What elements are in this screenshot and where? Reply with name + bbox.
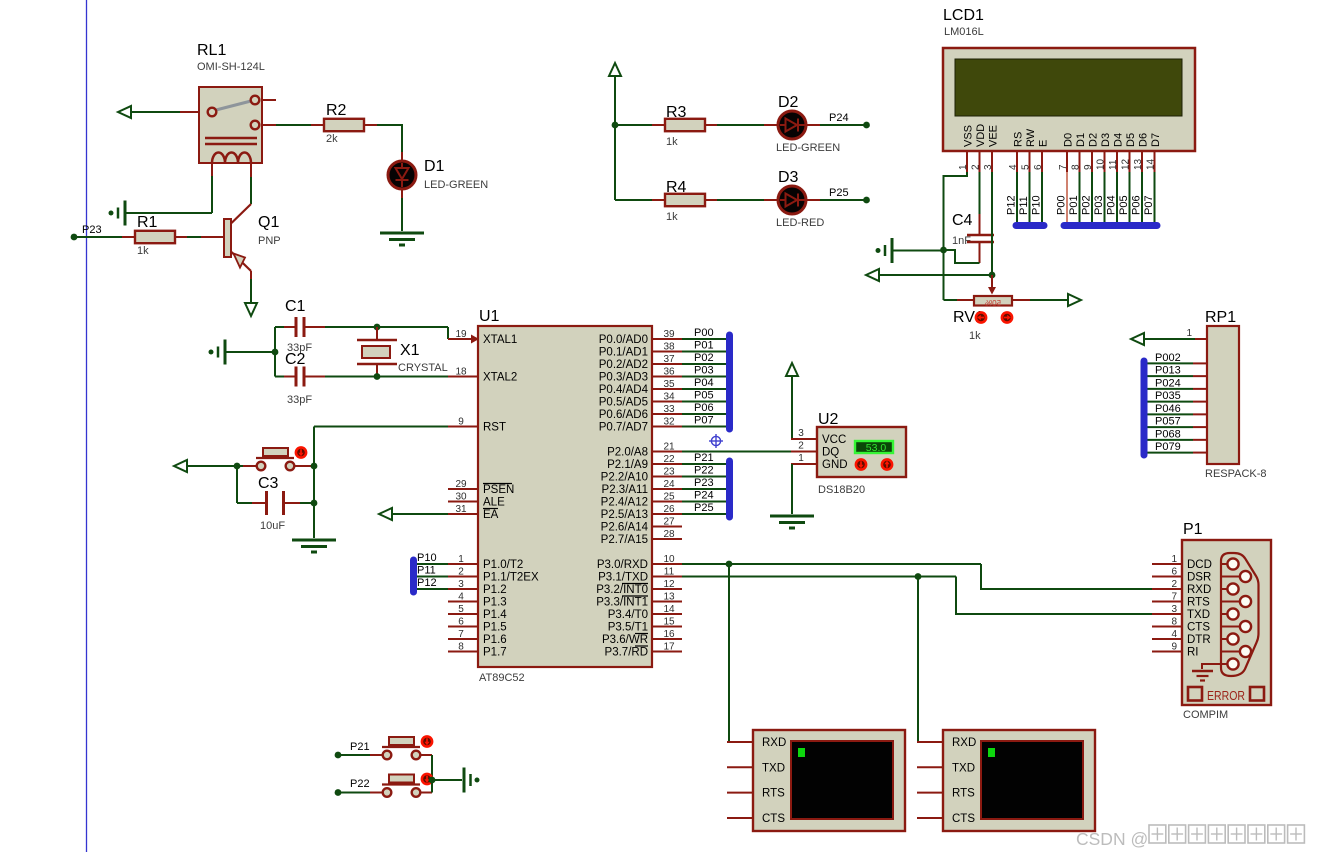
wire RXD to P1 <box>981 564 1152 589</box>
svg-text:P01: P01 <box>694 340 714 352</box>
svg-text:COMPIM: COMPIM <box>1183 709 1228 721</box>
svg-text:R1: R1 <box>137 214 158 231</box>
svg-text:TXD: TXD <box>1187 609 1210 621</box>
svg-text:P3.7/RD: P3.7/RD <box>605 647 648 659</box>
svg-text:P0.0/AD0: P0.0/AD0 <box>599 334 648 346</box>
svg-text:P05: P05 <box>694 390 714 402</box>
svg-text:P2.7/A15: P2.7/A15 <box>601 534 648 546</box>
svg-text:P3.5/T1: P3.5/T1 <box>608 622 648 634</box>
svg-text:29: 29 <box>455 479 467 490</box>
svg-text:P079: P079 <box>1155 441 1181 453</box>
svg-text:53.0: 53.0 <box>866 442 887 454</box>
button P21 actuator <box>422 736 432 746</box>
junction crystal bottom <box>374 373 381 380</box>
junction reset right <box>311 463 318 470</box>
wire relay NO to R2 <box>276 124 311 126</box>
svg-text:LED-RED: LED-RED <box>776 217 824 229</box>
capacitor C4 <box>952 172 994 263</box>
wire power rail down to R4 <box>615 125 652 200</box>
svg-text:P03: P03 <box>694 365 714 377</box>
svg-text:ALE: ALE <box>483 497 505 509</box>
svg-text:P2.3/A11: P2.3/A11 <box>602 484 648 496</box>
svg-text:D3: D3 <box>778 169 799 186</box>
svg-text:9: 9 <box>1083 164 1094 170</box>
bus LCD control <box>1016 222 1044 229</box>
wire relay coil to Q1 collector <box>250 177 252 204</box>
svg-text:LED-GREEN: LED-GREEN <box>776 142 840 154</box>
svg-text:RXD: RXD <box>762 737 786 749</box>
node arrow VEE rail <box>866 269 879 281</box>
svg-text:2: 2 <box>798 441 804 452</box>
LED D2 <box>776 94 840 154</box>
svg-text:TXD: TXD <box>762 762 785 774</box>
svg-text:D0: D0 <box>1063 133 1075 147</box>
svg-text:P2.5/A13: P2.5/A13 <box>601 509 648 521</box>
wire R2 to D1 <box>377 125 402 161</box>
wire U1 TXD run <box>682 576 956 578</box>
svg-text:P24: P24 <box>694 490 714 502</box>
svg-text:TXD: TXD <box>952 762 975 774</box>
ground left of relay coil <box>109 201 126 226</box>
svg-text:P3.0/RXD: P3.0/RXD <box>597 559 648 571</box>
svg-text:33: 33 <box>663 404 675 415</box>
svg-text:26: 26 <box>663 504 675 515</box>
ground below U2 <box>770 516 814 528</box>
svg-text:7: 7 <box>1171 592 1177 603</box>
node arrow reset left <box>174 460 187 472</box>
svg-text:8: 8 <box>1171 617 1177 628</box>
svg-text:D3: D3 <box>1100 133 1112 147</box>
transistor Q1 <box>224 204 281 279</box>
svg-text:P21: P21 <box>350 741 370 753</box>
svg-text:16: 16 <box>663 629 675 640</box>
svg-text:38: 38 <box>663 342 675 353</box>
svg-text:4: 4 <box>1171 629 1177 640</box>
crystal X1 <box>357 340 448 377</box>
sheet border line <box>86 0 88 852</box>
svg-text:2: 2 <box>1171 579 1177 590</box>
svg-text:P12: P12 <box>417 577 437 589</box>
svg-text:1k: 1k <box>666 136 678 148</box>
svg-text:P2.0/A8: P2.0/A8 <box>607 447 648 459</box>
svg-text:14: 14 <box>663 604 675 615</box>
svg-text:D7: D7 <box>1150 133 1162 147</box>
svg-text:CSDN @: CSDN @ <box>1076 829 1148 849</box>
svg-text:P10: P10 <box>417 552 437 564</box>
svg-text:P1.6: P1.6 <box>483 634 507 646</box>
potentiometer RV1 <box>953 296 1012 342</box>
svg-text:1: 1 <box>1171 554 1177 565</box>
svg-text:R2: R2 <box>326 102 347 119</box>
wire ground to relay coil <box>126 176 212 213</box>
wires P00-P07 to bus <box>682 327 726 427</box>
svg-text:XTAL1: XTAL1 <box>483 334 517 346</box>
svg-text:6: 6 <box>458 617 464 628</box>
svg-text:P01: P01 <box>1068 195 1080 215</box>
svg-text:P1.2: P1.2 <box>483 584 507 596</box>
node P24 terminal <box>863 122 870 129</box>
wires RP1 to bus <box>1147 352 1207 453</box>
svg-text:P02: P02 <box>694 352 714 364</box>
svg-text:P3.1/TXD: P3.1/TXD <box>598 572 648 584</box>
svg-text:P24: P24 <box>829 112 849 124</box>
bus RP1 <box>1141 361 1148 455</box>
wire LCD VSS to ground node <box>944 172 968 250</box>
svg-text:1: 1 <box>958 164 969 170</box>
ground left of C1 C2 <box>209 340 226 365</box>
wire C2 to XTAL2 <box>325 376 448 378</box>
svg-text:12: 12 <box>1121 158 1132 170</box>
wires P21-P25 to bus <box>682 452 726 514</box>
svg-text:28: 28 <box>663 529 675 540</box>
svg-text:1k: 1k <box>137 245 149 257</box>
junction C3 right <box>311 500 318 507</box>
wire power to U2 VCC <box>791 376 817 439</box>
wire arrow to reset button <box>187 465 257 467</box>
button P22 <box>382 775 432 797</box>
svg-text:21: 21 <box>663 442 675 453</box>
svg-text:RP1: RP1 <box>1205 309 1236 326</box>
svg-text:37: 37 <box>663 354 675 365</box>
svg-text:GND: GND <box>822 459 848 471</box>
svg-text:17: 17 <box>663 642 675 653</box>
svg-text:P23: P23 <box>694 477 714 489</box>
svg-text:2: 2 <box>971 164 982 170</box>
svg-text:P2.4/A12: P2.4/A12 <box>601 497 648 509</box>
wire C3 to RST net <box>300 502 314 504</box>
svg-text:E: E <box>1038 140 1050 147</box>
svg-text:22: 22 <box>663 454 675 465</box>
wire U2 GND to ground <box>791 464 817 514</box>
wire power to R3 row <box>614 76 616 125</box>
svg-text:3: 3 <box>983 164 994 170</box>
svg-text:5: 5 <box>458 604 464 615</box>
svg-text:VCC: VCC <box>822 434 846 446</box>
svg-text:P3.3/INT1: P3.3/INT1 <box>596 597 648 609</box>
svg-text:AT89C52: AT89C52 <box>479 672 525 684</box>
svg-text:4: 4 <box>1008 164 1019 170</box>
power arrow top <box>609 63 621 76</box>
svg-text:P3.2/INT0: P3.2/INT0 <box>596 584 648 596</box>
svg-text:P04: P04 <box>1106 195 1118 215</box>
LED D3 <box>776 169 824 229</box>
svg-text:RS: RS <box>1013 132 1025 147</box>
svg-text:X1: X1 <box>400 342 420 359</box>
svg-text:DCD: DCD <box>1187 559 1212 571</box>
svg-text:P06: P06 <box>1131 195 1143 215</box>
svg-text:RST: RST <box>483 422 506 434</box>
power arrow U2 <box>786 363 798 376</box>
svg-text:LCD1: LCD1 <box>943 7 984 24</box>
svg-text:D1: D1 <box>424 158 445 175</box>
svg-text:P1: P1 <box>1183 521 1203 538</box>
svg-text:Q1: Q1 <box>258 214 279 231</box>
svg-text:VSS: VSS <box>963 125 975 147</box>
wires P10-P12 to bus <box>417 552 448 589</box>
bus P2 <box>726 461 733 517</box>
junction TXD <box>915 573 922 580</box>
wire LCD VEE down <box>991 172 993 275</box>
svg-text:P1.4: P1.4 <box>483 609 507 621</box>
wire VEE to RV1 wiper <box>988 275 996 295</box>
svg-text:9: 9 <box>1171 642 1177 653</box>
svg-text:P068: P068 <box>1155 428 1181 440</box>
wire R3 to D2 <box>717 124 778 126</box>
svg-text:35: 35 <box>663 379 675 390</box>
svg-text:P03: P03 <box>1093 195 1105 215</box>
svg-text:P0.6/AD6: P0.6/AD6 <box>599 409 648 421</box>
svg-text:19: 19 <box>455 329 467 340</box>
capacitor C2 <box>275 351 325 406</box>
svg-text:34: 34 <box>663 392 675 403</box>
node arrow RP1 pin1 <box>1131 333 1144 345</box>
svg-text:P013: P013 <box>1155 365 1181 377</box>
svg-text:P2.6/A14: P2.6/A14 <box>601 522 649 534</box>
svg-text:ERROR: ERROR <box>1207 689 1245 703</box>
svg-text:RTS: RTS <box>762 788 785 800</box>
svg-text:P0.3/AD3: P0.3/AD3 <box>599 372 648 384</box>
svg-text:27: 27 <box>663 517 675 528</box>
svg-text:13: 13 <box>663 592 675 603</box>
svg-text:14: 14 <box>1146 158 1157 170</box>
junction VEE <box>989 272 996 279</box>
wire relay common to arrow <box>131 111 180 113</box>
svg-text:P2.2/A10: P2.2/A10 <box>601 472 648 484</box>
resistor R2 <box>311 102 377 145</box>
ground below reset net <box>292 540 336 552</box>
svg-text:1: 1 <box>798 453 804 464</box>
svg-text:36: 36 <box>663 367 675 378</box>
svg-text:P035: P035 <box>1155 390 1181 402</box>
svg-text:P02: P02 <box>1081 195 1093 215</box>
wire R4 to D3 <box>717 199 778 201</box>
svg-text:12: 12 <box>663 579 675 590</box>
reset button actuator <box>296 447 306 457</box>
svg-text:R3: R3 <box>666 104 687 121</box>
svg-text:RTS: RTS <box>952 788 975 800</box>
svg-text:11: 11 <box>664 567 675 578</box>
svg-text:P00: P00 <box>694 327 714 339</box>
reset button <box>256 448 314 470</box>
wires LCD data to bus <box>1006 172 1156 222</box>
capacitor C1 <box>275 298 325 354</box>
svg-text:P024: P024 <box>1155 377 1181 389</box>
svg-text:10: 10 <box>1096 158 1107 170</box>
bus P0 <box>726 335 733 429</box>
svg-text:D5: D5 <box>1125 133 1137 147</box>
svg-text:P21: P21 <box>694 452 714 464</box>
relay RL1 <box>180 87 276 177</box>
svg-text:RESPACK-8: RESPACK-8 <box>1205 468 1267 480</box>
svg-text:P1.5: P1.5 <box>483 622 507 634</box>
svg-text:8: 8 <box>458 642 464 653</box>
svg-text:P1.7: P1.7 <box>483 647 507 659</box>
svg-text:P05: P05 <box>1118 195 1130 215</box>
resistor R3 <box>652 104 717 148</box>
svg-text:3: 3 <box>1171 604 1177 615</box>
svg-text:31: 31 <box>455 504 467 515</box>
svg-text:CTS: CTS <box>1187 622 1210 634</box>
junction R3 row <box>612 122 619 129</box>
sensor U2 DS18B20 <box>798 411 906 496</box>
svg-text:P0.7/AD7: P0.7/AD7 <box>599 422 648 434</box>
svg-text:CTS: CTS <box>762 813 785 825</box>
wire RST net vertical <box>313 427 315 539</box>
svg-text:P046: P046 <box>1155 403 1181 415</box>
svg-text:39: 39 <box>663 329 675 340</box>
svg-text:P22: P22 <box>350 778 370 790</box>
wire TXD to terminal2 <box>918 577 943 743</box>
svg-text:15: 15 <box>663 617 675 628</box>
svg-text:1: 1 <box>458 554 464 565</box>
svg-text:U1: U1 <box>479 308 500 325</box>
svg-text:7: 7 <box>1058 164 1069 170</box>
svg-text:3: 3 <box>798 428 804 439</box>
svg-text:P10: P10 <box>1031 195 1043 215</box>
svg-text:P1.1/T2EX: P1.1/T2EX <box>483 572 539 584</box>
svg-text:P04: P04 <box>694 377 714 389</box>
wire U2 DQ to U1 P2.0 <box>682 451 817 453</box>
wire P23 to R1 <box>76 236 122 238</box>
svg-text:VEE: VEE <box>988 125 1000 147</box>
svg-text:2: 2 <box>458 567 464 578</box>
svg-text:D2: D2 <box>1088 133 1100 147</box>
svg-text:D4: D4 <box>1113 133 1125 147</box>
svg-text:P07: P07 <box>694 415 714 427</box>
svg-text:RI: RI <box>1187 647 1199 659</box>
junction reset left <box>234 463 241 470</box>
svg-text:D1: D1 <box>1075 133 1087 147</box>
wire C1C2 vertical <box>274 327 276 377</box>
svg-text:3: 3 <box>458 579 464 590</box>
svg-text:P0.2/AD2: P0.2/AD2 <box>599 359 648 371</box>
svg-text:P00: P00 <box>1056 195 1068 215</box>
watermark CSDN <box>1076 825 1304 849</box>
svg-text:P1.0/T2: P1.0/T2 <box>483 559 523 571</box>
wire VSS node down to RV1 <box>944 250 974 300</box>
svg-text:30: 30 <box>455 492 467 503</box>
svg-text:RXD: RXD <box>952 737 976 749</box>
junction RXD <box>726 561 733 568</box>
svg-text:P11: P11 <box>1018 196 1030 215</box>
svg-text:1k: 1k <box>969 330 981 342</box>
ground right of buttons <box>464 768 480 793</box>
node arrow EA <box>379 508 392 520</box>
wire C4 to ground node <box>944 250 980 263</box>
wire ground to C1 C2 <box>226 351 275 353</box>
LCD1 LM016L <box>943 7 1195 172</box>
svg-text:C4: C4 <box>952 212 973 229</box>
bus LCD data <box>1064 222 1157 229</box>
svg-text:C1: C1 <box>285 298 306 315</box>
svg-text:XTAL2: XTAL2 <box>483 372 517 384</box>
svg-text:32: 32 <box>663 417 675 428</box>
svg-text:VDD: VDD <box>975 124 987 147</box>
wire EA arrow to U1 <box>392 513 448 515</box>
svg-text:DQ: DQ <box>822 447 839 459</box>
svg-text:18: 18 <box>455 367 467 378</box>
svg-text:C2: C2 <box>285 351 306 368</box>
svg-text:RXD: RXD <box>1187 584 1211 596</box>
wire RXD to terminal1 <box>729 564 753 742</box>
svg-text:P3.6/WR: P3.6/WR <box>602 634 648 646</box>
svg-text:P25: P25 <box>694 502 714 514</box>
resistor R1 <box>122 214 187 257</box>
wire C3 left leg <box>237 466 265 503</box>
resistor pack RP1 <box>1186 309 1266 480</box>
svg-text:5: 5 <box>1021 164 1032 170</box>
wire P21 to button1 <box>340 754 383 756</box>
wire RP1 pin1 <box>1144 338 1195 340</box>
svg-text:LED-GREEN: LED-GREEN <box>424 179 488 191</box>
wire D1 to ground <box>401 189 403 231</box>
svg-text:P23: P23 <box>82 224 102 236</box>
svg-text:6: 6 <box>1033 164 1044 170</box>
wire RV1 right <box>1012 299 1068 301</box>
wire VEE rail <box>879 274 992 276</box>
svg-text:11: 11 <box>1108 159 1119 170</box>
node P22 terminal <box>335 778 370 796</box>
ratsnest wire D0 <box>1056 172 1068 228</box>
LED D1 <box>388 158 488 191</box>
svg-text:P12: P12 <box>1006 195 1018 215</box>
svg-text:R4: R4 <box>666 179 687 196</box>
svg-text:RTS: RTS <box>1187 597 1210 609</box>
svg-text:33pF: 33pF <box>287 394 312 406</box>
svg-text:U2: U2 <box>818 411 839 428</box>
svg-text:24: 24 <box>663 479 675 490</box>
node P21 terminal <box>335 741 370 758</box>
svg-text:OMI-SH-124L: OMI-SH-124L <box>197 61 265 73</box>
bus P1 <box>410 560 417 592</box>
capacitor C3 <box>258 475 300 532</box>
svg-text:D2: D2 <box>778 94 799 111</box>
svg-text:DTR: DTR <box>1187 634 1211 646</box>
svg-text:8: 8 <box>1071 164 1082 170</box>
wire junction to R3 <box>615 124 652 126</box>
svg-text:P002: P002 <box>1155 352 1181 364</box>
svg-text:P3.4/T0: P3.4/T0 <box>608 609 648 621</box>
wire Q1 emitter down <box>250 279 252 302</box>
wire C1 to XTAL1 <box>325 327 448 339</box>
svg-text:2k: 2k <box>326 133 338 145</box>
node arrow relay common <box>118 106 131 118</box>
wire button1 to junction <box>431 755 433 780</box>
node P25 terminal <box>863 197 870 204</box>
virtual terminal 1 <box>727 730 905 831</box>
wire ground to VSS node <box>893 250 944 252</box>
svg-text:P22: P22 <box>694 465 714 477</box>
IC U1 AT89C52 <box>448 308 682 684</box>
node arrow Q1 emitter output <box>245 303 257 316</box>
wire D2 to P24 <box>804 112 866 125</box>
svg-text:25: 25 <box>663 492 675 503</box>
svg-text:EA: EA <box>483 509 499 521</box>
wire RST to U1 <box>314 426 448 428</box>
svg-text:23: 23 <box>663 467 675 478</box>
wire TXD to P1 <box>956 577 1152 615</box>
button P22 actuator <box>422 774 432 784</box>
serial port P1 COMPIM <box>1152 521 1271 721</box>
svg-text:DS18B20: DS18B20 <box>818 484 865 496</box>
wire crystal top <box>376 327 378 340</box>
svg-text:9: 9 <box>458 417 464 428</box>
svg-text:10: 10 <box>663 554 675 565</box>
marker origin crosshair <box>709 434 723 448</box>
svg-text:C3: C3 <box>258 475 279 492</box>
svg-text:P057: P057 <box>1155 416 1181 428</box>
svg-text:4: 4 <box>458 592 464 603</box>
